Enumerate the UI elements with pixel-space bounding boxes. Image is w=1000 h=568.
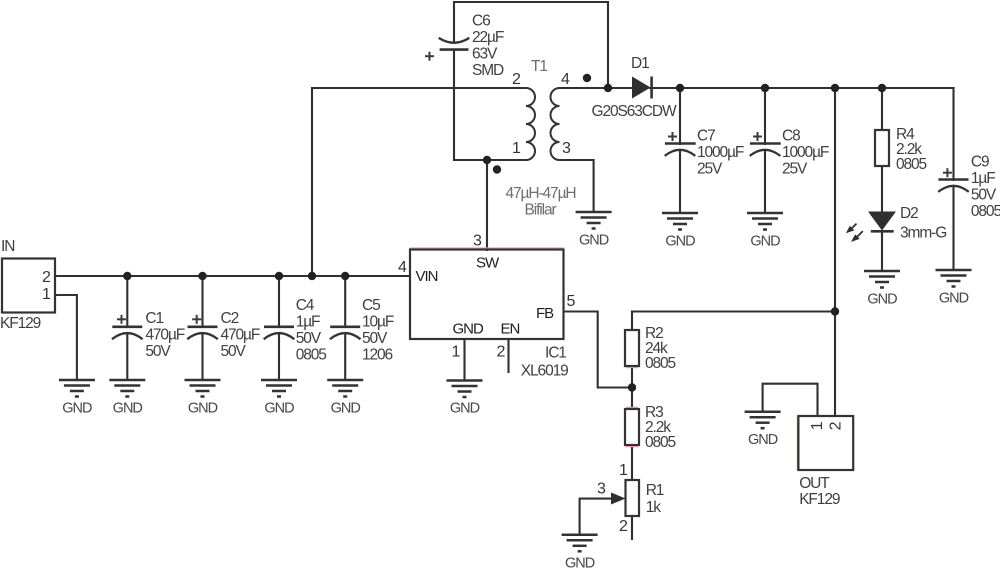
svg-text:GND: GND bbox=[450, 401, 480, 417]
svg-text:25V: 25V bbox=[697, 161, 723, 178]
svg-text:GND: GND bbox=[748, 432, 778, 448]
junction node C7 bbox=[676, 84, 684, 92]
resistor R3 2.2k 0805 bbox=[625, 404, 676, 451]
junction node OUT branch bbox=[831, 84, 839, 92]
svg-text:2: 2 bbox=[827, 421, 844, 430]
capacitor C9 1uF 50V 0805 bbox=[938, 154, 1000, 221]
svg-text:GND: GND bbox=[113, 401, 143, 417]
svg-text:R1: R1 bbox=[646, 482, 664, 499]
ground R1 bbox=[562, 535, 598, 552]
svg-text:47µH-47µH: 47µH-47µH bbox=[506, 185, 576, 202]
wire C4 lower lead bbox=[278, 334, 280, 380]
svg-text:2: 2 bbox=[619, 518, 628, 535]
svg-text:5: 5 bbox=[567, 293, 576, 310]
svg-text:25V: 25V bbox=[782, 161, 808, 178]
svg-text:3: 3 bbox=[562, 140, 571, 157]
svg-text:470µF: 470µF bbox=[145, 327, 184, 344]
capacitor C8 1000uF 25V bbox=[750, 128, 829, 178]
junction node C1 bbox=[123, 272, 131, 280]
svg-text:XL6019: XL6019 bbox=[521, 363, 568, 380]
svg-text:GND: GND bbox=[939, 291, 969, 307]
svg-text:C9: C9 bbox=[971, 154, 989, 171]
svg-text:GND: GND bbox=[579, 233, 609, 249]
wire C8 lower lead bbox=[764, 151, 766, 213]
svg-text:1: 1 bbox=[619, 462, 628, 479]
wire top loop C6 bbox=[454, 1, 608, 3]
svg-text:1000µF: 1000µF bbox=[782, 144, 829, 161]
svg-text:G20S63CDW: G20S63CDW bbox=[592, 103, 677, 120]
resistor R2 24k 0805 bbox=[625, 325, 676, 372]
svg-text:1: 1 bbox=[452, 344, 461, 361]
wire C6 bottom lead bbox=[453, 50, 455, 160]
ground C7 bbox=[662, 213, 698, 230]
ground C4 bbox=[261, 380, 297, 397]
svg-text:C1: C1 bbox=[145, 310, 163, 327]
ground OUT bbox=[745, 412, 781, 429]
svg-text:SMD: SMD bbox=[472, 62, 504, 79]
wire R2 top rail to OUT net bbox=[632, 310, 835, 312]
wire C4 leads bbox=[278, 276, 280, 327]
junction node input rail / top loop bbox=[308, 272, 316, 280]
svg-text:C4: C4 bbox=[296, 297, 315, 314]
svg-text:T1: T1 bbox=[531, 58, 547, 75]
svg-text:IC1: IC1 bbox=[545, 345, 566, 362]
svg-text:1: 1 bbox=[512, 140, 521, 157]
svg-text:3: 3 bbox=[473, 233, 482, 250]
svg-text:FB: FB bbox=[536, 305, 554, 322]
wire R2 top lead bbox=[631, 312, 633, 331]
transformer T1 47uH-47uH bifilar bbox=[506, 58, 576, 219]
svg-text:0805: 0805 bbox=[645, 355, 676, 372]
wire rail to OUT pin2 bbox=[834, 88, 836, 416]
capacitor C4 1uF 50V 0805 bbox=[264, 297, 327, 364]
svg-text:EN: EN bbox=[501, 321, 520, 338]
wire R3-R1 link bbox=[631, 445, 633, 480]
wire T1 pin3 to GND bbox=[560, 160, 594, 212]
svg-text:50V: 50V bbox=[296, 330, 322, 347]
svg-text:50V: 50V bbox=[145, 343, 171, 360]
LED D2 3mm-G bbox=[846, 205, 946, 242]
svg-text:2: 2 bbox=[512, 71, 521, 88]
resistor R4 2.2k 0805 bbox=[875, 126, 927, 173]
svg-text:GND: GND bbox=[750, 234, 780, 250]
svg-text:VIN: VIN bbox=[416, 268, 438, 285]
junction node C5 bbox=[341, 272, 349, 280]
wire input rail bbox=[55, 275, 410, 277]
junction node R4 bbox=[878, 84, 886, 92]
wire C1 lower lead bbox=[126, 334, 128, 380]
ground D2 bbox=[864, 271, 900, 288]
junction node C4 bbox=[275, 272, 283, 280]
wire C2 lower lead bbox=[201, 334, 203, 380]
ground IC1 bbox=[447, 381, 483, 398]
svg-text:SW: SW bbox=[476, 255, 500, 272]
wire FB to divider bbox=[564, 312, 633, 388]
junction node C8 bbox=[761, 84, 769, 92]
svg-text:KF129: KF129 bbox=[0, 315, 41, 332]
svg-text:D1: D1 bbox=[631, 55, 649, 72]
ground IN bbox=[59, 380, 95, 397]
wire C2 leads bbox=[201, 276, 203, 327]
connector OUT (KF129) bbox=[798, 416, 854, 508]
wire C5 lower lead bbox=[344, 334, 346, 380]
connector IN (KF129) bbox=[0, 238, 55, 332]
svg-text:GND: GND bbox=[665, 234, 695, 250]
wire R4 to D2 bbox=[881, 166, 883, 212]
capacitor C1 470uF 50V bbox=[112, 310, 185, 360]
wiper arrow bbox=[611, 493, 626, 505]
svg-text:0805: 0805 bbox=[296, 347, 327, 364]
ground C5 bbox=[327, 380, 363, 397]
wire R2-R3 link bbox=[631, 366, 633, 409]
wire C7 lower lead bbox=[679, 151, 681, 213]
svg-text:IN: IN bbox=[1, 238, 14, 255]
ground C9 bbox=[936, 270, 972, 287]
svg-text:0805: 0805 bbox=[896, 156, 927, 173]
svg-text:50V: 50V bbox=[971, 187, 997, 204]
svg-text:1µF: 1µF bbox=[971, 170, 995, 187]
svg-text:GND: GND bbox=[331, 401, 361, 417]
svg-text:D2: D2 bbox=[900, 205, 918, 222]
wire C5 leads bbox=[344, 276, 346, 327]
junction node T1 pin1 / SW bbox=[483, 156, 491, 164]
svg-text:1µF: 1µF bbox=[296, 314, 320, 331]
junction node R2 top / OUT bbox=[831, 307, 839, 315]
wire C9 lower lead bbox=[952, 187, 954, 271]
wire C6 to T1 pin1 bbox=[454, 159, 526, 161]
svg-text:C5: C5 bbox=[362, 297, 380, 314]
wire C9 upper lead bbox=[952, 88, 954, 180]
wire C7 leads bbox=[679, 88, 681, 144]
junction node FB divider bbox=[628, 383, 636, 391]
svg-text:4: 4 bbox=[561, 71, 570, 88]
svg-text:C6: C6 bbox=[472, 13, 490, 30]
svg-text:OUT: OUT bbox=[799, 475, 830, 492]
svg-text:10µF: 10µF bbox=[362, 314, 394, 331]
wire R1 wiper to GND bbox=[580, 499, 614, 535]
wire IC GND pin bbox=[463, 339, 465, 381]
potentiometer R1 1k bbox=[597, 462, 664, 535]
wire D2 to GND bbox=[881, 231, 883, 271]
svg-text:50V: 50V bbox=[221, 343, 247, 360]
wire R1 bottom lead bbox=[631, 516, 633, 539]
svg-text:0805: 0805 bbox=[971, 203, 1000, 220]
junction node T1 pin4 bbox=[604, 84, 612, 92]
svg-text:1: 1 bbox=[42, 286, 51, 303]
svg-text:KF129: KF129 bbox=[799, 491, 840, 508]
capacitor C2 470uF 50V bbox=[187, 310, 260, 360]
svg-text:C7: C7 bbox=[697, 128, 715, 145]
wire IC EN pin bbox=[507, 339, 509, 372]
svg-text:1k: 1k bbox=[646, 499, 662, 516]
node dot T1 pin1 marker bbox=[493, 165, 501, 173]
wire SW pin3 bbox=[486, 160, 488, 250]
ground C2 bbox=[185, 380, 221, 397]
svg-text:C8: C8 bbox=[782, 128, 800, 145]
ground C1 bbox=[109, 380, 145, 397]
svg-text:1206: 1206 bbox=[362, 347, 393, 364]
svg-text:GND: GND bbox=[264, 401, 294, 417]
svg-text:GND: GND bbox=[188, 401, 218, 417]
LED arrows bbox=[846, 224, 863, 242]
wire OUT pin1 to GND bbox=[763, 384, 818, 416]
ground T1 bbox=[576, 212, 612, 229]
junction node C2 bbox=[198, 272, 206, 280]
svg-text:Bifilar: Bifilar bbox=[525, 202, 557, 219]
wire IN pin1 to GND bbox=[55, 295, 77, 380]
ground C8 bbox=[747, 213, 783, 230]
wire C8 leads bbox=[764, 88, 766, 144]
wire R4 upper lead bbox=[881, 88, 883, 130]
wire T1 pin2 to input rail bbox=[312, 88, 526, 276]
svg-text:0805: 0805 bbox=[645, 434, 676, 451]
svg-text:3mm-G: 3mm-G bbox=[900, 225, 946, 242]
svg-text:22µF: 22µF bbox=[472, 29, 504, 46]
svg-text:3: 3 bbox=[597, 481, 606, 498]
svg-text:2: 2 bbox=[42, 269, 51, 286]
wire C1 leads bbox=[126, 276, 128, 327]
wire T1 pin4 to D1 bbox=[560, 87, 634, 89]
capacitor C6 22uF 63V SMD (flipped polarized) bbox=[425, 13, 504, 80]
capacitor C7 1000uF 25V bbox=[665, 128, 744, 178]
svg-text:GND: GND bbox=[867, 292, 897, 308]
svg-text:1: 1 bbox=[809, 421, 826, 430]
svg-text:50V: 50V bbox=[362, 330, 388, 347]
wire output rail bbox=[650, 87, 954, 89]
capacitor C5 10uF 50V 1206 bbox=[330, 297, 394, 364]
svg-text:4: 4 bbox=[398, 259, 407, 276]
svg-text:GND: GND bbox=[62, 401, 92, 417]
IC U1 XL6019 bbox=[398, 233, 576, 380]
svg-text:GND: GND bbox=[565, 555, 595, 568]
svg-text:C2: C2 bbox=[221, 310, 239, 327]
T1 left winding bbox=[526, 88, 535, 160]
svg-text:2: 2 bbox=[497, 344, 506, 361]
wire C6 top lead bbox=[453, 2, 455, 41]
diode D1 G20S63CDW bbox=[592, 55, 677, 120]
svg-text:1000µF: 1000µF bbox=[697, 144, 744, 161]
svg-text:470µF: 470µF bbox=[221, 327, 260, 344]
svg-text:63V: 63V bbox=[472, 46, 498, 63]
T1 right winding bbox=[551, 88, 560, 160]
node dot T1 pin4 marker bbox=[583, 74, 591, 82]
svg-text:GND: GND bbox=[453, 321, 485, 338]
wire T1 pin4 vertical bbox=[607, 2, 609, 88]
